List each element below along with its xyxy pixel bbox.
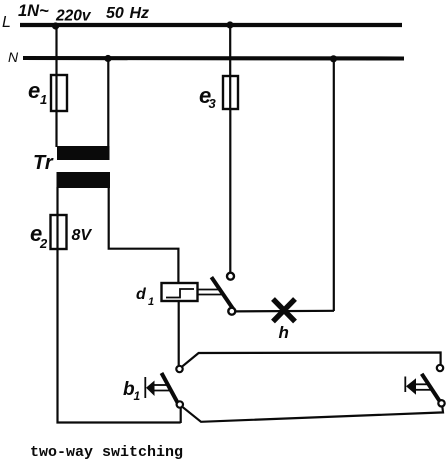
- bus N: [8, 49, 404, 65]
- svg-text:2: 2: [39, 236, 48, 251]
- wire L to fuse e1: [55, 26, 57, 147]
- wire relay d1 to button b1: [178, 301, 180, 366]
- push-button right: [405, 365, 444, 407]
- svg-text:N: N: [8, 49, 19, 65]
- wire b1 to bottom-left wire: [180, 408, 182, 424]
- svg-text:d: d: [136, 286, 147, 303]
- transformer Tr secondary winding: [57, 172, 111, 188]
- svg-text:50: 50: [106, 5, 124, 22]
- junction N / lamp branch: [330, 55, 337, 62]
- svg-text:e: e: [28, 78, 40, 103]
- svg-text:8V: 8V: [72, 227, 93, 244]
- wire N to transformer primary: [107, 59, 109, 148]
- svg-text:3: 3: [209, 96, 217, 111]
- supply label 1N~ 220V 50Hz: [18, 2, 149, 25]
- wire secondary to fuse e2: [56, 187, 58, 250]
- svg-text:L: L: [2, 14, 11, 31]
- bottom rail wire b1 to right button: [182, 406, 443, 422]
- junction L / e1 branch: [52, 22, 59, 29]
- svg-text:1: 1: [148, 296, 154, 308]
- fuse e3: [199, 76, 238, 111]
- wire e2 down and across bottom to b1: [58, 248, 181, 423]
- svg-text:h: h: [279, 323, 289, 342]
- svg-text:Tr: Tr: [33, 152, 54, 174]
- svg-text:1: 1: [134, 389, 141, 403]
- wire L to fuse e3: [229, 26, 231, 110]
- junction L / e3 branch: [226, 21, 233, 28]
- svg-text:two-way switching: two-way switching: [30, 444, 183, 461]
- fuse e1: [28, 75, 67, 111]
- relay coil d1: [136, 283, 198, 308]
- bus L: [2, 14, 402, 31]
- wire contact to lamp and N branch: [235, 310, 334, 313]
- wire secondary right to relay d1: [109, 187, 179, 284]
- transformer Tr primary winding: [57, 146, 110, 160]
- junction N / transformer primary: [104, 55, 111, 62]
- relay contact d1 (switch): [198, 273, 236, 315]
- svg-text:Hz: Hz: [130, 5, 150, 22]
- fuse e2: [30, 215, 92, 251]
- wire fuse e3 to relay contact: [229, 108, 231, 273]
- svg-text:1N~: 1N~: [18, 2, 49, 20]
- wire lamp branch up to N: [333, 59, 335, 311]
- top rail wire b1 to right button: [182, 353, 441, 367]
- lamp h: [273, 299, 295, 342]
- svg-text:1: 1: [40, 92, 47, 107]
- svg-text:220v: 220v: [55, 8, 92, 25]
- push-button b1: [123, 366, 183, 408]
